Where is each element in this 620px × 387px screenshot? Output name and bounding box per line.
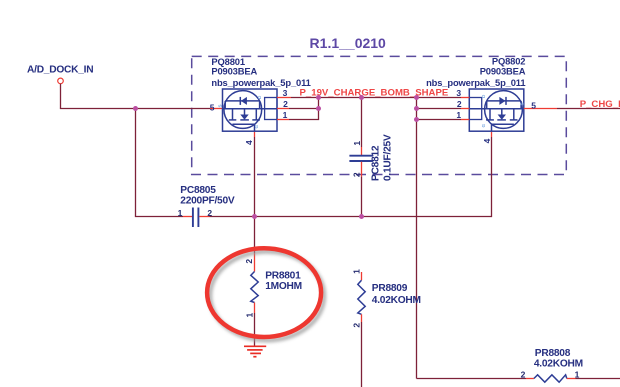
svg-text:1: 1 (178, 208, 183, 218)
wire horizontal to PQ8801 pin 5 (60, 108, 210, 110)
svg-text:2: 2 (244, 259, 254, 264)
transistor PQ8801 pin name marks (218, 95, 263, 129)
svg-text:PC8812: PC8812 (371, 145, 382, 181)
svg-text:2: 2 (457, 99, 462, 109)
wire from terminal down (60, 84, 62, 109)
wire PQ8801 pin2 horizontal (289, 108, 319, 110)
svg-text:G: G (481, 124, 486, 128)
wire vertical from junction down to cap row (135, 109, 137, 217)
svg-text:PR8809: PR8809 (372, 283, 408, 294)
node junction dot on dock net (133, 106, 138, 111)
svg-text:P0903BEA: P0903BEA (211, 66, 257, 77)
terminal circle A/D_DOCK_IN (58, 78, 64, 84)
wire PQ8801 pin1 horizontal (289, 119, 319, 121)
svg-text:A/D_DOCK_IN: A/D_DOCK_IN (27, 65, 93, 76)
svg-text:4.02KOHM: 4.02KOHM (372, 295, 421, 306)
svg-text:P_19V_CHARGE_BOMB_SHAPE: P_19V_CHARGE_BOMB_SHAPE (300, 87, 449, 98)
svg-text:2: 2 (283, 99, 288, 109)
transistor PQ8802 pin name marks (481, 94, 525, 128)
wire PQ8801 pins tie vertical (318, 98, 320, 120)
svg-text:3: 3 (283, 88, 288, 98)
svg-text:P_CHG_P: P_CHG_P (580, 99, 620, 110)
svg-text:PC8805: PC8805 (180, 185, 216, 196)
wire PQ8802 pin4 vertical (491, 137, 493, 217)
wire PQ8802 pin2 horizontal (417, 108, 462, 110)
svg-text:1MOHM: 1MOHM (265, 281, 302, 292)
svg-text:D: D (257, 95, 262, 99)
transistor PQ8802 pin stubs (461, 98, 557, 120)
transistor PQ8801 (223, 89, 278, 131)
capacitor PC8812 (349, 98, 393, 217)
transistor PQ8801 pin stubs (277, 98, 291, 120)
svg-text:R1.1__0210: R1.1__0210 (310, 35, 387, 51)
svg-text:2: 2 (352, 172, 362, 177)
resistor PR8801 (244, 217, 302, 347)
svg-text:4.02KOHM: 4.02KOHM (534, 359, 583, 370)
svg-text:2200PF/50V: 2200PF/50V (180, 195, 235, 206)
wire horizontal to PC8805 pin 1 (135, 216, 183, 218)
svg-text:5: 5 (210, 103, 215, 113)
wire PQ8802 pin4 red stub (491, 131, 493, 137)
highlight ellipse shadow (210, 252, 324, 341)
svg-text:1: 1 (456, 110, 461, 120)
svg-text:P0903BEA: P0903BEA (480, 65, 526, 76)
svg-text:3: 3 (456, 88, 461, 98)
node junction dot PQ8802 pin3 (414, 95, 419, 100)
node junction dot cap row at PR8801 (252, 214, 257, 219)
svg-text:1: 1 (352, 141, 362, 146)
svg-text:PR8801: PR8801 (265, 270, 301, 281)
svg-text:0.1UF/25V: 0.1UF/25V (383, 134, 394, 181)
wire PQ8802 pin1 horizontal (417, 119, 462, 121)
node junction dot net at PC8812 (359, 95, 364, 100)
wire PQ8802 pins tie vertical down to PR8808 row (416, 98, 418, 379)
svg-text:D: D (481, 94, 486, 98)
svg-text:1: 1 (575, 370, 580, 380)
wire PR8808 row corner (417, 378, 527, 380)
node junction dot PQ8801 pin2 (316, 106, 321, 111)
net P_19V_CHARGE_BOMB_SHAPE wire (291, 97, 461, 99)
ground (244, 346, 266, 356)
resistor PR8808 (521, 348, 620, 382)
svg-text:4: 4 (482, 138, 492, 143)
wire red stub into PQ8801 pin 5 (210, 108, 223, 110)
svg-text:PR8808: PR8808 (535, 348, 571, 359)
node junction dot PQ8802 pin1 (414, 117, 419, 122)
svg-text:S: S (520, 102, 525, 105)
svg-text:nbs_powerpak_5p_011: nbs_powerpak_5p_011 (426, 77, 525, 88)
svg-text:2: 2 (352, 323, 362, 328)
transistor PQ8802 labels (426, 55, 536, 143)
svg-text:4: 4 (244, 140, 254, 145)
wire P_CHG net out to right edge (557, 108, 620, 110)
wire PQ8801 pin4 vertical (254, 137, 256, 217)
svg-text:S: S (218, 104, 223, 107)
svg-text:G: G (254, 125, 259, 129)
dashed hierarchical block border (192, 56, 567, 174)
wire cap row from PC8805 to PQ8802 pin4 corner (210, 216, 492, 218)
wire PQ8801 pin4 red stub (254, 131, 256, 137)
svg-text:2: 2 (521, 370, 526, 380)
svg-text:5: 5 (531, 100, 536, 110)
node junction dot PQ8802 pin2 (414, 106, 419, 111)
node junction dot cap row at PC8812 (359, 214, 364, 219)
svg-text:1: 1 (352, 269, 362, 274)
transistor PQ8801 labels (210, 56, 311, 145)
svg-text:1: 1 (283, 110, 288, 120)
svg-text:nbs_powerpak_5p_011: nbs_powerpak_5p_011 (211, 77, 310, 88)
svg-text:1: 1 (245, 312, 255, 317)
capacitor PC8805 (178, 185, 235, 227)
transistor PQ8802 (469, 89, 524, 131)
highlight ellipse around PR8801 (207, 248, 321, 337)
resistor PR8809 (352, 269, 421, 387)
node junction dot PQ8801 pin3 (316, 95, 321, 100)
